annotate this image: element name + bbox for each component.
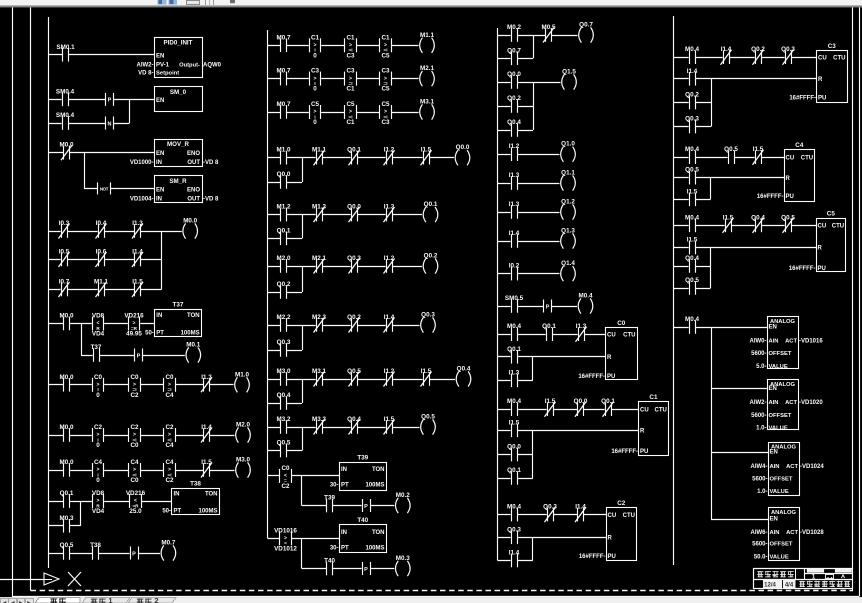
svg-text:C0: C0 — [617, 320, 626, 327]
svg-text:Q0.7: Q0.7 — [579, 22, 593, 29]
svg-text:EN: EN — [770, 450, 778, 456]
svg-text:M0.0: M0.0 — [60, 424, 74, 431]
svg-text:CTU: CTU — [832, 224, 844, 230]
svg-text:R: R — [786, 176, 791, 182]
svg-text:C0: C0 — [281, 465, 290, 472]
svg-text:T38: T38 — [90, 542, 101, 549]
svg-text:VD8: VD8 — [92, 313, 105, 320]
svg-text:PU: PU — [786, 194, 794, 200]
svg-text:M1.3: M1.3 — [312, 204, 326, 211]
svg-text:I1.3: I1.3 — [132, 220, 143, 227]
svg-text:5600-: 5600- — [752, 476, 767, 482]
svg-text:16#FFFF-: 16#FFFF- — [789, 266, 816, 272]
svg-text:Q0.1: Q0.1 — [542, 323, 556, 330]
svg-text:0: 0 — [313, 119, 317, 126]
svg-text:0: 0 — [96, 477, 100, 484]
svg-text:C3: C3 — [381, 68, 390, 75]
svg-text:5600-: 5600- — [751, 351, 766, 357]
svg-text:I0.2: I0.2 — [509, 263, 520, 270]
svg-text:P: P — [364, 567, 368, 573]
svg-text:I1.3: I1.3 — [384, 204, 395, 211]
svg-text:I1.5: I1.5 — [509, 419, 520, 426]
svg-text:M1.1: M1.1 — [312, 147, 326, 154]
svg-text:M0.1: M0.1 — [186, 342, 200, 349]
svg-text:Q0.0: Q0.0 — [507, 444, 521, 451]
svg-text:C4: C4 — [165, 459, 174, 466]
svg-text:M0.0: M0.0 — [60, 313, 74, 320]
svg-text:R: R — [607, 355, 612, 361]
svg-text:I1.3: I1.3 — [509, 369, 520, 376]
svg-text:100MS: 100MS — [198, 509, 217, 515]
svg-text:I1.4: I1.4 — [575, 504, 586, 511]
svg-text:M0.4: M0.4 — [685, 316, 699, 323]
svg-text:I1.5: I1.5 — [753, 146, 764, 153]
svg-text:M0.0: M0.0 — [60, 374, 74, 381]
svg-text:CTU: CTU — [801, 155, 813, 161]
svg-text:I1.5: I1.5 — [687, 237, 698, 244]
svg-text:CTU: CTU — [623, 513, 635, 519]
svg-text:Q0.1: Q0.1 — [347, 147, 361, 154]
svg-text:M0.7: M0.7 — [161, 540, 175, 547]
svg-text:TON: TON — [187, 313, 200, 319]
svg-text:C3: C3 — [346, 52, 355, 59]
svg-text:C5: C5 — [381, 86, 390, 93]
svg-text:C0: C0 — [165, 374, 174, 381]
svg-text:C0: C0 — [130, 442, 139, 449]
svg-text:M3.0: M3.0 — [277, 368, 291, 375]
svg-text:PT: PT — [156, 331, 164, 337]
svg-text:I1.4: I1.4 — [201, 424, 212, 431]
svg-text:Q0.3: Q0.3 — [543, 504, 557, 511]
svg-text:AQW0: AQW0 — [203, 62, 222, 68]
svg-text:VALUE: VALUE — [769, 364, 788, 370]
svg-text:T39: T39 — [357, 455, 368, 462]
svg-text:M2.3: M2.3 — [312, 314, 326, 321]
svg-text:16#FFFF-: 16#FFFF- — [611, 449, 638, 455]
svg-text:I1.4: I1.4 — [509, 230, 520, 237]
svg-text:Q0.2: Q0.2 — [507, 95, 521, 102]
svg-text:Q0.5: Q0.5 — [781, 214, 795, 221]
svg-text:MOV_R: MOV_R — [167, 141, 190, 148]
svg-text:TON: TON — [372, 467, 385, 473]
svg-text:IN: IN — [174, 492, 180, 498]
svg-text:Q0.4: Q0.4 — [347, 416, 361, 423]
svg-text:I1.4: I1.4 — [509, 549, 520, 556]
svg-text:Q0.2: Q0.2 — [347, 314, 361, 321]
svg-text:M0.2: M0.2 — [507, 24, 521, 31]
svg-text:C3: C3 — [346, 68, 355, 75]
svg-text:100MS: 100MS — [365, 546, 384, 552]
svg-text:TON: TON — [205, 492, 218, 498]
svg-text:5.0-: 5.0- — [756, 364, 766, 370]
svg-text:C3: C3 — [381, 119, 390, 126]
svg-text:NOT: NOT — [100, 186, 109, 191]
svg-text:16#FFFF-: 16#FFFF- — [578, 374, 605, 380]
svg-text:ANALOG: ANALOG — [771, 510, 797, 516]
svg-text:16#FFFF-: 16#FFFF- — [757, 194, 784, 200]
svg-text:IN: IN — [156, 160, 162, 166]
svg-text:VD216: VD216 — [124, 313, 144, 320]
svg-text:M2.0: M2.0 — [236, 422, 250, 429]
svg-text:SM_0: SM_0 — [170, 89, 187, 96]
svg-text:I0.7: I0.7 — [59, 279, 70, 286]
svg-text:PID0_INIT: PID0_INIT — [164, 40, 193, 47]
svg-text:M0.7: M0.7 — [277, 101, 291, 108]
svg-text:R: R — [818, 77, 823, 83]
svg-text:Q0.3: Q0.3 — [685, 116, 699, 123]
svg-text:I1.2: I1.2 — [384, 147, 395, 154]
svg-text:Q0.3: Q0.3 — [347, 255, 361, 262]
svg-text:OFFSET: OFFSET — [769, 351, 792, 357]
svg-text:Q0.5: Q0.5 — [724, 146, 738, 153]
svg-text:OFFSET: OFFSET — [770, 476, 793, 482]
svg-text:Q0.1: Q0.1 — [507, 467, 521, 474]
svg-text:P: P — [137, 353, 141, 359]
svg-text:16#FFFF-: 16#FFFF- — [789, 96, 816, 102]
svg-text:M0.7: M0.7 — [277, 68, 291, 75]
svg-text:CU: CU — [608, 513, 617, 519]
svg-text:PV-1: PV-1 — [156, 62, 170, 68]
svg-text:M0.4: M0.4 — [507, 323, 521, 330]
svg-text:AIW4-: AIW4- — [751, 464, 768, 470]
svg-text:ACT: ACT — [785, 338, 797, 344]
svg-text:T39: T39 — [324, 495, 335, 502]
svg-text:C4: C4 — [165, 392, 174, 399]
svg-text:-VD 8: -VD 8 — [203, 196, 219, 202]
svg-text:I1.5: I1.5 — [421, 147, 432, 154]
svg-text:Q0.3: Q0.3 — [781, 46, 795, 53]
svg-text:M2.1: M2.1 — [420, 65, 434, 72]
svg-text:CTU: CTU — [623, 332, 635, 338]
svg-text:P: P — [546, 304, 550, 310]
svg-text:PU: PU — [640, 449, 648, 455]
svg-text:50-: 50- — [162, 509, 171, 515]
svg-text:C5: C5 — [311, 101, 320, 108]
svg-text:12/4: 12/4 — [764, 583, 776, 589]
svg-text:ACT: ACT — [786, 530, 798, 536]
svg-text:OUT: OUT — [187, 160, 200, 166]
svg-text:M1.0: M1.0 — [277, 147, 291, 154]
svg-text:EN: EN — [770, 517, 778, 523]
svg-text:Q1.1: Q1.1 — [561, 170, 575, 177]
svg-text:I1.5: I1.5 — [421, 368, 432, 375]
svg-text:Setpoint: Setpoint — [156, 71, 179, 77]
svg-text:PT: PT — [341, 546, 349, 552]
svg-text:C2: C2 — [281, 483, 290, 490]
svg-text:I0.4: I0.4 — [96, 220, 107, 227]
svg-text:VALUE: VALUE — [770, 554, 789, 560]
svg-text:-VD 8: -VD 8 — [203, 160, 219, 166]
svg-text:C1: C1 — [311, 34, 320, 41]
svg-text:Q0.2: Q0.2 — [277, 281, 291, 288]
svg-text:C1: C1 — [346, 86, 355, 93]
svg-text:C3: C3 — [311, 68, 320, 75]
svg-text:VD 8-: VD 8- — [138, 71, 153, 77]
svg-text:N: N — [108, 121, 112, 127]
svg-text:C1: C1 — [346, 34, 355, 41]
svg-text:I1.5: I1.5 — [723, 214, 734, 221]
svg-text:-VD1028: -VD1028 — [800, 530, 824, 536]
svg-text:M0.4: M0.4 — [685, 146, 699, 153]
svg-text:Q0.5: Q0.5 — [347, 368, 361, 375]
svg-text:Q0.5: Q0.5 — [421, 414, 435, 421]
svg-text:R: R — [818, 246, 823, 252]
svg-text:5600-: 5600- — [751, 413, 766, 419]
svg-text:M1.1: M1.1 — [94, 279, 108, 286]
svg-text:C5: C5 — [381, 52, 390, 59]
svg-text:AIW2-: AIW2- — [750, 400, 767, 406]
svg-text:C1: C1 — [346, 119, 355, 126]
svg-text:C4: C4 — [795, 142, 804, 149]
svg-text:PU: PU — [818, 96, 826, 102]
svg-text:Q0.4: Q0.4 — [751, 214, 765, 221]
svg-text:IN: IN — [341, 530, 347, 536]
svg-text:M0.5: M0.5 — [542, 24, 556, 31]
svg-text:C0: C0 — [130, 477, 139, 484]
svg-text:M0.0: M0.0 — [60, 459, 74, 466]
svg-text:VD4: VD4 — [92, 331, 105, 338]
svg-text:EN: EN — [156, 151, 164, 157]
svg-text:Q0.4: Q0.4 — [507, 119, 521, 126]
svg-text:Q0.0: Q0.0 — [347, 204, 361, 211]
svg-text:C3: C3 — [828, 43, 837, 50]
svg-text:2: 2 — [154, 596, 158, 603]
svg-text:C5: C5 — [381, 101, 390, 108]
svg-text:Q1.5: Q1.5 — [562, 69, 576, 76]
svg-text:Q0.1: Q0.1 — [507, 346, 521, 353]
svg-text:C5: C5 — [346, 101, 355, 108]
svg-text:AIN: AIN — [770, 464, 780, 470]
svg-text:Q0.0: Q0.0 — [574, 398, 588, 405]
svg-text:VALUE: VALUE — [770, 489, 789, 495]
svg-text:I0.5: I0.5 — [59, 249, 70, 256]
svg-text:0: 0 — [96, 392, 100, 399]
svg-text:VD8: VD8 — [92, 490, 105, 497]
svg-text:T38: T38 — [190, 481, 201, 488]
svg-text:I0.3: I0.3 — [59, 220, 70, 227]
svg-text:Q0.5: Q0.5 — [277, 440, 291, 447]
svg-text:I1.4: I1.4 — [721, 46, 732, 53]
svg-text:Q0.0: Q0.0 — [277, 171, 291, 178]
svg-text:5600-: 5600- — [752, 542, 767, 548]
svg-text:25.0: 25.0 — [129, 508, 142, 515]
svg-text:M0.3: M0.3 — [396, 555, 410, 562]
svg-text:M2.0: M2.0 — [277, 255, 291, 262]
svg-text:OUT: OUT — [187, 196, 200, 202]
svg-text:Q1.0: Q1.0 — [561, 141, 575, 148]
svg-text:M3.0: M3.0 — [236, 457, 250, 464]
svg-text:M3.1: M3.1 — [312, 368, 326, 375]
svg-text:-VD1016: -VD1016 — [799, 338, 823, 344]
svg-text:VD1012: VD1012 — [274, 545, 297, 552]
svg-text:C4: C4 — [130, 459, 139, 466]
svg-text:I1.2: I1.2 — [384, 368, 395, 375]
svg-text:Q0.5: Q0.5 — [685, 277, 699, 284]
svg-text:PU: PU — [608, 554, 616, 560]
svg-text:C2: C2 — [165, 477, 174, 484]
svg-text:Q0.1: Q0.1 — [601, 398, 615, 405]
svg-text:M3.1: M3.1 — [420, 99, 434, 106]
svg-text:I1.5: I1.5 — [201, 459, 212, 466]
svg-text:0: 0 — [313, 86, 317, 93]
svg-text:1: 1 — [108, 596, 112, 603]
svg-text:CTU: CTU — [833, 55, 845, 61]
svg-text:30-: 30- — [330, 483, 339, 489]
svg-text:CU: CU — [818, 224, 827, 230]
svg-text:C2: C2 — [617, 500, 626, 507]
svg-text:CU: CU — [818, 55, 827, 61]
svg-text:VD4: VD4 — [92, 508, 105, 515]
svg-text:Q1.2: Q1.2 — [561, 199, 575, 206]
svg-text:M0.2: M0.2 — [396, 492, 410, 499]
svg-text:VD1016: VD1016 — [274, 527, 297, 534]
svg-text:1: 1 — [812, 573, 816, 580]
svg-text:AIN: AIN — [770, 530, 780, 536]
svg-text:Q0.0: Q0.0 — [456, 144, 470, 151]
svg-text:Output-: Output- — [179, 62, 200, 68]
svg-text:M0.4: M0.4 — [685, 214, 699, 221]
svg-text:Q1.3: Q1.3 — [561, 228, 575, 235]
svg-text:EN: EN — [769, 325, 777, 331]
svg-text:Q0.2: Q0.2 — [424, 253, 438, 260]
svg-text:C2: C2 — [130, 392, 139, 399]
svg-text:C1: C1 — [649, 394, 658, 401]
svg-text:M0.4: M0.4 — [685, 46, 699, 53]
svg-text:I1.2: I1.2 — [509, 143, 520, 150]
svg-text:100MS: 100MS — [365, 483, 384, 489]
svg-text:I1.3: I1.3 — [509, 201, 520, 208]
svg-text:AIW0-: AIW0- — [750, 338, 767, 344]
svg-text:M3.2: M3.2 — [277, 416, 291, 423]
svg-text:100MS: 100MS — [181, 331, 200, 337]
svg-text:AIW2-: AIW2- — [137, 62, 154, 68]
svg-text:T40: T40 — [357, 517, 368, 524]
svg-text:CTU: CTU — [655, 407, 667, 413]
svg-text:SM0.4: SM0.4 — [56, 88, 75, 95]
svg-text:SM0.1: SM0.1 — [56, 44, 75, 51]
svg-text:M0.0: M0.0 — [183, 218, 197, 225]
svg-text:M2.1: M2.1 — [312, 255, 326, 262]
svg-text:P: P — [108, 98, 112, 104]
svg-text:R: R — [608, 536, 613, 542]
svg-text:I1.4: I1.4 — [687, 68, 698, 75]
svg-text:I1.5: I1.5 — [384, 416, 395, 423]
svg-text:C2: C2 — [94, 424, 103, 431]
svg-text:T37: T37 — [173, 302, 184, 309]
svg-text:Q0.1: Q0.1 — [277, 227, 291, 234]
svg-text:P: P — [132, 551, 136, 557]
svg-text:C5: C5 — [827, 211, 836, 218]
svg-text:I1.3: I1.3 — [576, 323, 587, 330]
svg-text:OFFSET: OFFSET — [770, 542, 793, 548]
svg-text:EN: EN — [156, 53, 164, 59]
svg-text:1.0-: 1.0- — [757, 489, 767, 495]
svg-text:CU: CU — [607, 332, 616, 338]
svg-text:ACT: ACT — [785, 400, 797, 406]
svg-text:C4: C4 — [165, 442, 174, 449]
svg-text:M1.2: M1.2 — [277, 204, 291, 211]
svg-text:ENO: ENO — [187, 151, 200, 157]
svg-text:C1: C1 — [381, 34, 390, 41]
svg-text:M2.2: M2.2 — [277, 314, 291, 321]
svg-text:-VD1024: -VD1024 — [800, 464, 824, 470]
svg-text:PT: PT — [174, 509, 182, 515]
svg-text:M1.0: M1.0 — [235, 371, 249, 378]
svg-text:C2: C2 — [165, 424, 174, 431]
svg-text:I1.2: I1.2 — [384, 255, 395, 262]
svg-text:VALUE: VALUE — [769, 426, 788, 432]
svg-text:C0: C0 — [130, 374, 139, 381]
svg-text:Q0.2: Q0.2 — [685, 92, 699, 99]
svg-text:VD216: VD216 — [126, 490, 146, 497]
svg-text:C0: C0 — [94, 374, 103, 381]
svg-text:1.0-: 1.0- — [756, 426, 766, 432]
svg-text:Q0.5: Q0.5 — [60, 542, 74, 549]
svg-text:PU: PU — [607, 374, 615, 380]
svg-text:R: R — [640, 429, 645, 435]
svg-text:Q0.1: Q0.1 — [424, 201, 438, 208]
svg-text:C2: C2 — [130, 424, 139, 431]
svg-text:M0.4: M0.4 — [507, 504, 521, 511]
svg-text:M0.3: M0.3 — [60, 515, 74, 522]
svg-text:M0.7: M0.7 — [277, 34, 291, 41]
svg-text:I1.5: I1.5 — [132, 279, 143, 286]
svg-text:M0.4: M0.4 — [507, 398, 521, 405]
svg-text:Q1.4: Q1.4 — [561, 260, 575, 267]
svg-text:Q0.3: Q0.3 — [277, 339, 291, 346]
svg-text:OFFSET: OFFSET — [769, 413, 792, 419]
svg-text:AIN: AIN — [769, 338, 779, 344]
svg-text:Q0.3: Q0.3 — [421, 312, 435, 319]
svg-text:I1.3: I1.3 — [509, 172, 520, 179]
svg-text:16#FFFF-: 16#FFFF- — [579, 554, 606, 560]
svg-text:CU: CU — [640, 407, 649, 413]
svg-text:Q0.3: Q0.3 — [507, 526, 521, 533]
svg-text:EN: EN — [156, 187, 164, 193]
svg-text:AIW6-: AIW6- — [751, 530, 768, 536]
svg-text:I1.3: I1.3 — [201, 374, 212, 381]
svg-text:IN: IN — [156, 196, 162, 202]
svg-text:P: P — [364, 504, 368, 510]
svg-text:I1.5: I1.5 — [687, 188, 698, 195]
svg-text:50-: 50- — [145, 331, 154, 337]
svg-text:Q0.7: Q0.7 — [507, 47, 521, 54]
svg-text:CU: CU — [786, 155, 795, 161]
svg-text:ENO: ENO — [187, 187, 200, 193]
svg-text:Q0.1: Q0.1 — [60, 490, 74, 497]
svg-text:4/4: 4/4 — [785, 583, 794, 589]
svg-text:C4: C4 — [94, 459, 103, 466]
svg-text:SM0.4: SM0.4 — [56, 112, 75, 119]
svg-text:0: 0 — [313, 52, 317, 59]
svg-text:EN: EN — [769, 386, 777, 392]
svg-text:T37: T37 — [91, 344, 102, 351]
svg-text:TON: TON — [372, 530, 385, 536]
svg-text:Q0.4: Q0.4 — [277, 392, 291, 399]
svg-text:ACT: ACT — [786, 464, 798, 470]
svg-text:IN: IN — [341, 467, 347, 473]
svg-text:VD1004-: VD1004- — [130, 196, 154, 202]
svg-text:I1.4: I1.4 — [384, 314, 395, 321]
svg-text:IN: IN — [156, 313, 162, 319]
svg-text:M1.1: M1.1 — [420, 32, 434, 39]
svg-text:49.95: 49.95 — [126, 331, 142, 338]
svg-text:AIN: AIN — [769, 400, 779, 406]
svg-text:-VD1020: -VD1020 — [799, 400, 823, 406]
svg-text:M3.3: M3.3 — [312, 416, 326, 423]
svg-text:I1.5: I1.5 — [545, 398, 556, 405]
svg-text:T40: T40 — [324, 558, 335, 565]
